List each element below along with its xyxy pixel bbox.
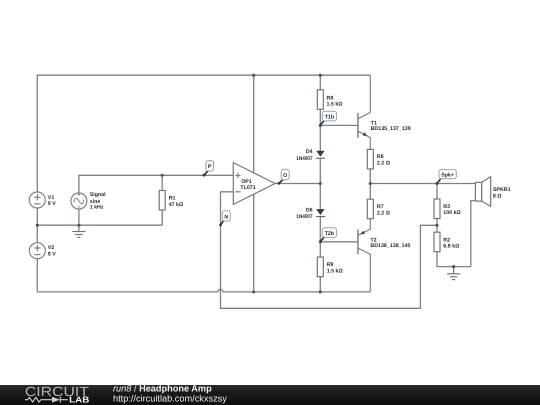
svg-text:100 kΩ: 100 kΩ	[443, 210, 461, 216]
diode D4 1N4007	[316, 151, 325, 159]
svg-text:1.5 kΩ: 1.5 kΩ	[327, 102, 344, 108]
svg-text:http://circuitlab.com/ckxszsy: http://circuitlab.com/ckxszsy	[113, 394, 227, 404]
svg-text:R7: R7	[377, 204, 384, 210]
resistor R3	[434, 199, 440, 219]
wire top rail V+	[37, 75, 370, 192]
label signal value	[90, 192, 106, 211]
signal source SIG1 (sine 1 kHz)	[71, 193, 87, 209]
transistor T2 PNP	[358, 219, 370, 292]
svg-text:R6: R6	[377, 154, 384, 160]
label SPKR1 value	[493, 187, 511, 200]
wire opamp output node O	[275, 183, 320, 185]
junction node Spk+ / R3	[435, 182, 438, 185]
resistor R1	[159, 191, 165, 211]
resistor R2	[434, 232, 440, 252]
node N flag	[219, 211, 230, 227]
label V1 value	[48, 195, 56, 207]
wire bottom rail V- (hops over feedback wire)	[37, 289, 370, 292]
svg-text:run8 / Headphone Amp: run8 / Headphone Amp	[113, 384, 212, 394]
svg-text:9 V: 9 V	[48, 201, 56, 207]
wire D6 to R9 through node T2b	[319, 217, 321, 258]
junction node T1b	[319, 124, 322, 127]
ground (output divider)	[447, 267, 460, 280]
node Spk+ flag	[437, 170, 456, 183]
svg-text:LAB: LAB	[69, 395, 89, 405]
svg-text:BD135_137_139: BD135_137_139	[371, 126, 411, 132]
svg-text:Spk+: Spk+	[441, 172, 454, 178]
junction top rail / opamp V+	[252, 74, 255, 77]
svg-text:R8: R8	[327, 96, 334, 102]
wire T1 base	[320, 124, 358, 126]
transistor T1 NPN	[358, 75, 370, 149]
wire R3 top stem	[436, 184, 438, 200]
wire output node to speaker (node Spk+)	[370, 183, 475, 185]
resistor R7	[367, 199, 373, 219]
svg-text:TL071: TL071	[240, 185, 255, 191]
label V2 value	[48, 245, 56, 258]
diode D6 1N4007	[316, 209, 325, 217]
label T2 value	[370, 237, 410, 249]
label D6 value	[296, 208, 312, 221]
label OP1 value	[240, 179, 255, 191]
junction R6-R7 output	[369, 182, 372, 185]
svg-text:BD136_138_140: BD136_138_140	[370, 243, 410, 249]
label R8 value	[327, 96, 344, 108]
wire R2 to ground	[437, 252, 471, 267]
svg-text:N: N	[224, 215, 228, 221]
op-amp OP1 TL071	[233, 163, 275, 205]
junction node P / R1	[161, 174, 164, 177]
ground (signal source)	[72, 225, 85, 237]
svg-text:47 kΩ: 47 kΩ	[169, 202, 184, 208]
label R6 value	[377, 154, 391, 166]
voltage source V1	[29, 192, 45, 208]
junction R2 / speaker return / ground	[452, 265, 455, 268]
node T2b flag	[321, 228, 337, 242]
wire R6 to output node	[369, 169, 371, 184]
node O flag	[278, 169, 290, 184]
junction bottom rail / opamp V-	[252, 290, 255, 293]
wire signal bottom to ground	[78, 209, 80, 225]
svg-text:1N4007: 1N4007	[296, 156, 312, 162]
wire ground bus left	[37, 224, 162, 226]
label R3 value	[443, 204, 461, 216]
svg-text:T2b: T2b	[325, 231, 335, 237]
wire signal top to opamp + (node P)	[79, 175, 233, 193]
junction node O / diode chain	[319, 182, 322, 185]
svg-text:1 kHz: 1 kHz	[90, 205, 104, 211]
label R1 value	[169, 196, 184, 208]
svg-text:V1: V1	[48, 195, 55, 201]
resistor R8	[317, 90, 323, 110]
svg-text:D4: D4	[306, 149, 313, 155]
junction V1-V2 / ground bus	[36, 224, 39, 227]
label T1 value	[371, 121, 411, 133]
wire R8 to D4 through node T1b	[319, 109, 321, 151]
wire speaker negative return	[471, 201, 476, 267]
voltage source V2	[29, 243, 45, 259]
node P flag	[203, 161, 214, 177]
svg-text:SPKR1: SPKR1	[493, 187, 511, 193]
wire opamp V+ supply	[253, 75, 255, 173]
svg-text:V2: V2	[48, 245, 55, 251]
node T1b flag	[321, 111, 337, 125]
speaker SPKR1	[475, 177, 490, 207]
junction signal source / ground	[77, 224, 80, 227]
svg-text:8 Ω: 8 Ω	[493, 194, 502, 200]
label R7 value	[377, 204, 391, 216]
svg-text:6.8 kΩ: 6.8 kΩ	[443, 244, 460, 250]
wire R3 to R2 junction	[436, 219, 438, 233]
svg-text:R2: R2	[443, 237, 450, 243]
wire bias chain top: rail to R8	[319, 75, 321, 90]
wire node N feedback: opamp minus to divider	[221, 192, 438, 308]
wire opamp V- supply	[253, 195, 255, 292]
junction bottom rail / R9	[319, 290, 322, 293]
svg-text:Signal: Signal	[90, 192, 106, 198]
svg-text:1N4007: 1N4007	[296, 214, 312, 220]
wire R1 bottom stem	[161, 210, 163, 225]
resistor R9	[317, 257, 323, 277]
svg-text:1.5 kΩ: 1.5 kΩ	[327, 269, 344, 275]
label R2 value	[443, 237, 460, 249]
svg-text:T1b: T1b	[325, 114, 335, 120]
junction top rail / R8	[319, 74, 322, 77]
junction node T2b	[319, 240, 322, 243]
wire R1 top stem	[161, 175, 163, 190]
resistor R6	[367, 149, 373, 169]
svg-text:D6: D6	[306, 208, 313, 214]
label R9 value	[327, 262, 344, 274]
svg-text:9 V: 9 V	[48, 251, 56, 257]
wire R7 top stem	[369, 184, 371, 200]
label D4 value	[296, 149, 312, 162]
svg-text:O: O	[283, 173, 287, 179]
svg-text:R9: R9	[327, 262, 334, 268]
wire D4 to D6 through node O	[319, 159, 321, 209]
wire V1-V2 link	[36, 208, 38, 243]
svg-text:R3: R3	[443, 204, 450, 210]
svg-text:2.2 Ω: 2.2 Ω	[377, 211, 391, 217]
svg-text:R1: R1	[169, 196, 176, 202]
svg-text:2.2 Ω: 2.2 Ω	[377, 161, 391, 167]
svg-text:P: P	[208, 164, 212, 170]
wire V2 to bottom rail	[36, 259, 38, 292]
junction R3-R2 feedback	[435, 224, 438, 227]
footer logo resistor-diode symbol	[25, 397, 68, 403]
wire R9 to bottom rail	[319, 277, 321, 292]
footer bar	[0, 385, 540, 405]
wire T2 base	[320, 241, 358, 243]
